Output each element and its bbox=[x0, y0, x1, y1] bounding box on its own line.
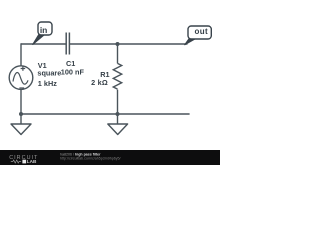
svg-text:100 nF: 100 nF bbox=[61, 67, 85, 76]
svg-text:in: in bbox=[40, 25, 48, 35]
svg-text:square: square bbox=[37, 69, 61, 78]
svg-text:out: out bbox=[194, 27, 208, 36]
svg-text:1 kHz: 1 kHz bbox=[38, 79, 57, 88]
svg-text:LAB: LAB bbox=[27, 159, 37, 164]
svg-text:2 kΩ: 2 kΩ bbox=[91, 78, 108, 87]
svg-text:http://circuitlab.com/c/ah5p3m: http://circuitlab.com/c/ah5p3m9hp6y5/ bbox=[60, 156, 121, 160]
